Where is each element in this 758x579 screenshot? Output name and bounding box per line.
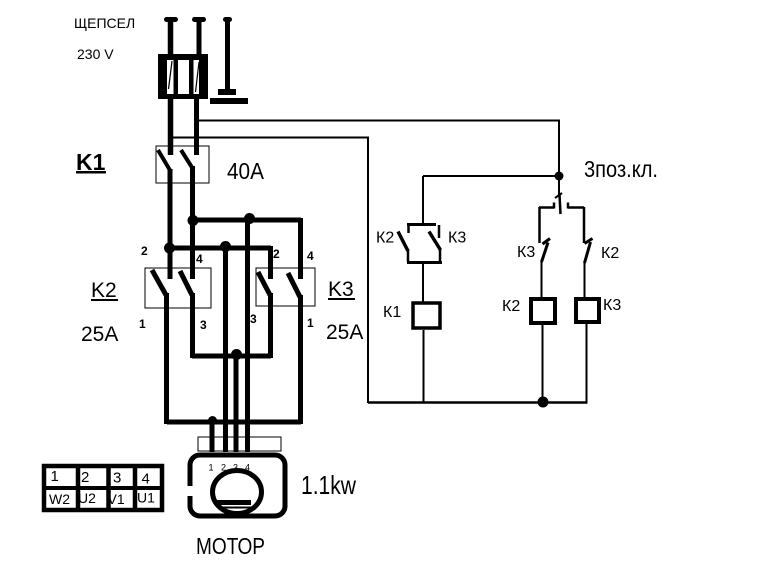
K3 pin1 wire: [298, 295, 303, 424]
svg-text:4: 4: [142, 471, 150, 488]
plug socket body: [158, 54, 208, 99]
svg-text:V1: V1: [108, 491, 125, 507]
K2 pin1 wire: [164, 293, 169, 424]
svg-text:К2: К2: [502, 298, 520, 315]
svg-text:40A: 40A: [227, 158, 265, 184]
svg-text:1: 1: [51, 468, 59, 485]
svg-text:4: 4: [196, 252, 203, 266]
svg-text:К2: К2: [601, 245, 619, 262]
wire motor line 2: [223, 248, 228, 452]
node junction bottom: [538, 397, 549, 408]
K1 pole 1 output wire: [168, 169, 173, 279]
wire K3 pin4 drop: [298, 218, 303, 279]
wire motor line 3: [234, 356, 239, 452]
svg-text:МОТОР: МОТОР: [196, 533, 265, 559]
K1 pole 2 output wire: [190, 166, 195, 279]
svg-text:К3: К3: [603, 297, 621, 314]
wire L to 3-pos switch: [197, 121, 559, 177]
svg-text:ЩЕПСЕЛ: ЩЕПСЕЛ: [74, 15, 135, 31]
3-pos left throw bracket: [539, 203, 554, 244]
node junction 3-pos: [555, 172, 564, 181]
contact К2 blade left: [398, 232, 408, 252]
3-pos switch blade: [560, 195, 561, 214]
coil K2: [531, 299, 555, 323]
wire to K1 coil branch: [423, 175, 559, 177]
motor body gap: [184, 486, 193, 496]
label K2: [91, 279, 118, 302]
3-pos right throw bracket: [568, 203, 584, 244]
svg-text:K2: K2: [91, 279, 117, 302]
motor rotor bar: [217, 500, 251, 505]
parallel contacts bottom bar: [407, 248, 442, 263]
wire motor line 1: [210, 422, 215, 452]
svg-text:25A: 25A: [326, 321, 363, 344]
breaker K1 box: [156, 146, 209, 183]
wire K2 coil to bottom: [542, 325, 544, 403]
node junction: [208, 416, 217, 425]
wire К3 contact to K2 coil: [541, 261, 543, 297]
wire K3 coil to bottom: [586, 324, 588, 403]
K1 pole 1 blade: [158, 150, 171, 172]
coil K3: [576, 299, 599, 322]
contact К3 blade: [542, 243, 549, 263]
terminal table: [44, 464, 162, 510]
contact К2 blade: [585, 242, 591, 263]
svg-text:3: 3: [200, 318, 207, 332]
svg-text:K3: K3: [328, 278, 354, 301]
svg-text:1: 1: [139, 317, 146, 331]
contactor K2 box: [145, 268, 211, 308]
wire N return: [168, 138, 368, 404]
motor body: [190, 455, 285, 516]
3-pos switch tick: [555, 193, 562, 198]
svg-text:1.1kw: 1.1kw: [301, 470, 356, 500]
K1 pole 2 blade: [181, 150, 193, 169]
node junction: [220, 241, 231, 252]
svg-text:К2: К2: [376, 230, 394, 247]
wire K3 pin2 drop: [268, 246, 273, 279]
K3 contact 2-3 blade: [258, 272, 270, 295]
svg-text:К1: К1: [383, 304, 401, 321]
svg-text:W2: W2: [49, 491, 70, 507]
node junction: [231, 349, 242, 360]
wire down to parallel contacts: [422, 176, 424, 225]
K3 pin3 wire: [268, 293, 273, 358]
contactor K3 box: [256, 268, 315, 306]
svg-text:230 V: 230 V: [77, 46, 114, 62]
node junction: [188, 215, 199, 226]
svg-text:3: 3: [250, 312, 257, 326]
svg-text:2: 2: [141, 244, 148, 258]
svg-text:2: 2: [273, 247, 280, 261]
svg-text:3поз.кл.: 3поз.кл.: [584, 156, 658, 182]
svg-text:1: 1: [307, 316, 314, 330]
K2 contact 2-1 blade: [152, 270, 166, 295]
svg-text:4: 4: [307, 249, 314, 263]
wire K1 coil to bottom: [423, 330, 425, 403]
wire К2 contact to K3 coil: [584, 262, 586, 297]
node junction: [244, 213, 255, 224]
parallel contacts top bar: [407, 224, 439, 238]
wire contacts to K1 coil: [422, 262, 424, 302]
bottom return wire: [368, 401, 588, 404]
wire bus lower (to K3 pin2): [169, 246, 271, 251]
bus bar pins 3: [192, 354, 271, 359]
svg-text:25A: 25A: [81, 323, 118, 346]
motor rotor bar thin: [218, 507, 251, 509]
svg-text:U1: U1: [137, 490, 155, 506]
motor rotor circle: [213, 471, 262, 514]
svg-text:3: 3: [233, 463, 238, 473]
wire motor line 4: [245, 220, 250, 452]
motor terminal strip: [198, 437, 281, 451]
contact К3 tick: [543, 239, 551, 245]
svg-text:К3: К3: [448, 230, 466, 247]
coil K1: [413, 303, 440, 328]
svg-text:3: 3: [113, 470, 121, 487]
svg-text:2: 2: [81, 469, 89, 486]
K2 contact 4-3 blade: [180, 271, 192, 295]
node junction: [164, 243, 175, 254]
plug pin L1: [164, 17, 178, 155]
label K3: [328, 278, 355, 301]
svg-text:4: 4: [245, 463, 250, 473]
svg-text:U2: U2: [78, 490, 96, 506]
K3 contact 4-1 blade: [288, 273, 300, 297]
svg-text:2: 2: [221, 463, 226, 473]
svg-text:1: 1: [209, 463, 214, 473]
3-pos switch stem: [558, 176, 560, 195]
svg-text:К3: К3: [517, 244, 535, 261]
bus bar pins 1: [167, 420, 301, 425]
K2 pin3 wire: [190, 293, 195, 358]
ground: [210, 17, 248, 104]
contact К3 blade right: [429, 232, 441, 251]
plug pin N: [192, 17, 206, 155]
label K1: [76, 149, 106, 175]
wire bus upper (to K3 pin4): [192, 218, 301, 223]
contact К2 tick: [585, 239, 593, 244]
